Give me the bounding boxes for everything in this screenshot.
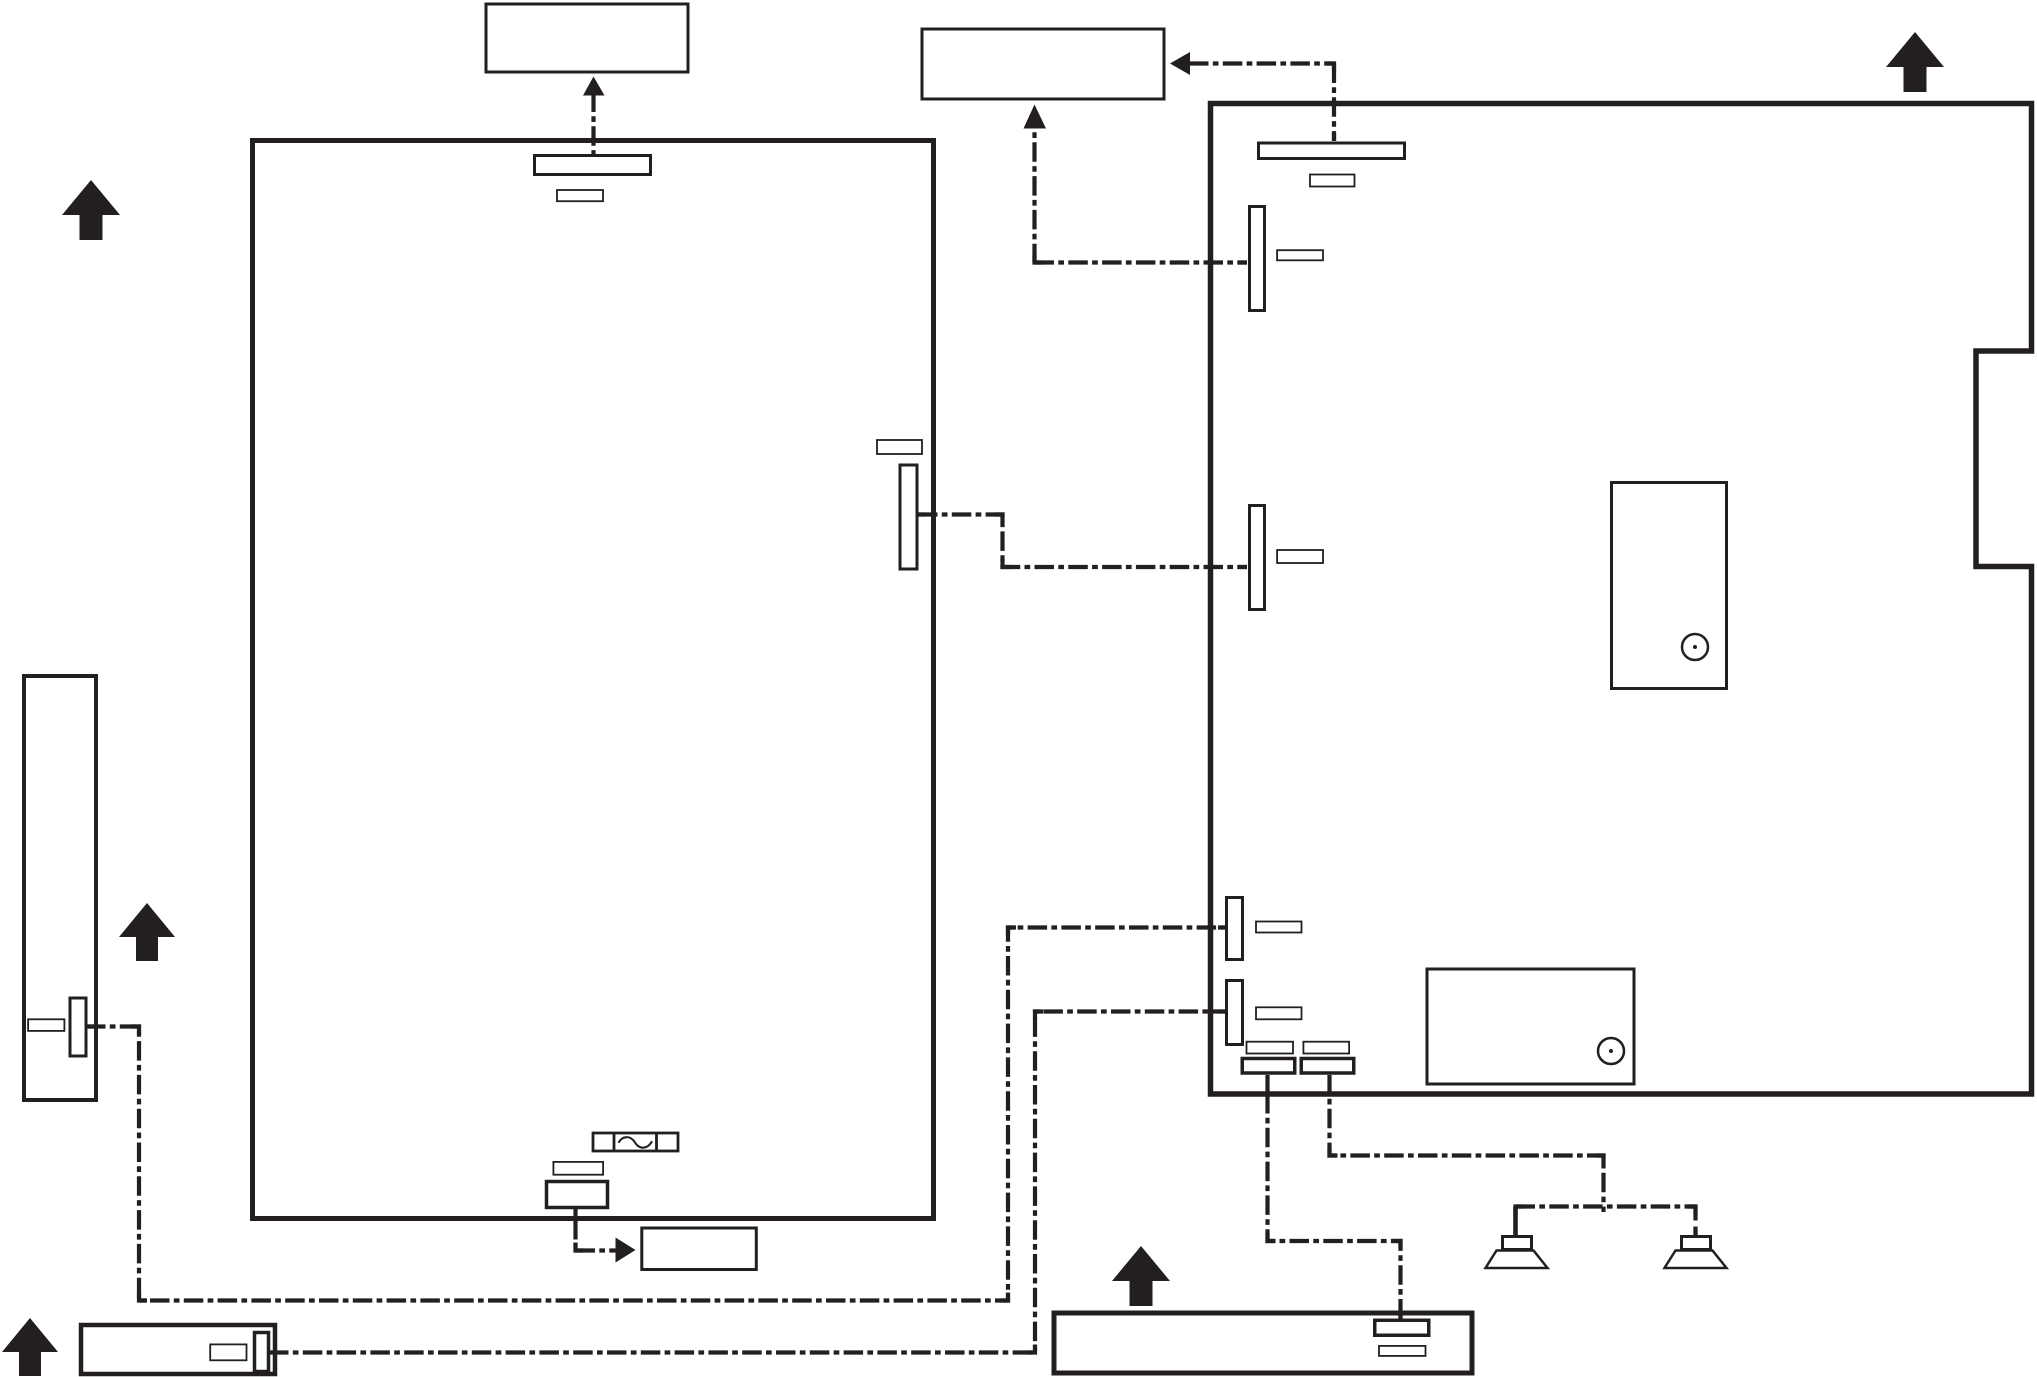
wire W4 CN2 to CN5	[918, 515, 1247, 568]
connector CN9 (line-out thick)	[1301, 1059, 1354, 1074]
AC power connector (thick)	[547, 1182, 608, 1208]
label AC	[553, 1162, 603, 1175]
connector CN1 (chassis A top)	[535, 156, 651, 175]
label CN7	[1256, 1007, 1302, 1019]
label CN5	[1277, 550, 1323, 563]
wire endpoint stubs (solid)	[86, 133, 1696, 1353]
nav arrow 4 (above bottom-right unit)	[1112, 1246, 1170, 1306]
box U3 (bottom-left external unit)	[81, 1325, 275, 1374]
nav arrow 2 (left mid)	[119, 903, 175, 961]
nav arrow 3 (top-right)	[1886, 32, 1944, 92]
wire W2 vertical	[1032, 128, 1036, 263]
wire W5 CN10 to CN6	[86, 928, 1226, 1301]
speaker SP-R	[1665, 1237, 1727, 1269]
speaker SP-L	[1486, 1237, 1548, 1269]
wire W2 horizontal to CN4	[1035, 260, 1248, 264]
wire W9 drop to SP-R	[1693, 1207, 1697, 1237]
side unit (tall left box)	[24, 676, 96, 1100]
connector CN7 (chassis B lower-left vertical 2)	[1227, 981, 1243, 1045]
label CN6	[1256, 922, 1302, 933]
label CN4	[1277, 250, 1323, 260]
wire W3 arrowhead into U2 right	[1170, 52, 1190, 75]
wire W3 vertical into CN3	[1332, 64, 1336, 142]
wire W9 speaker bus	[1516, 1204, 1696, 1208]
connector CN5 (chassis B mid-left vertical)	[1250, 506, 1265, 610]
wire W2 arrowhead into U2 bottom	[1024, 105, 1047, 129]
screw M2	[1682, 634, 1708, 660]
wire W9 CN9 to speakers	[1330, 1075, 1604, 1212]
box U4 (bottom-right external unit)	[1054, 1313, 1472, 1373]
PSU module (box with screw)	[1427, 969, 1634, 1084]
wire corner joints (solid patches)	[131, 64, 1696, 1353]
module M2 (tall box with screw)	[1612, 483, 1727, 689]
label CN12	[1379, 1346, 1426, 1356]
chassis A (left panel outline)	[253, 141, 934, 1219]
box U2 (top-middle external unit)	[922, 29, 1164, 99]
connector CN11 (bottom-left unit right end)	[255, 1333, 269, 1372]
label CN10	[28, 1019, 64, 1031]
wire W1 stem+arrowhead into U1	[583, 77, 605, 96]
label CN3	[1310, 175, 1355, 187]
label CN9 (thin rect above line-out)	[1303, 1042, 1349, 1054]
wire W3 horizontal	[1189, 61, 1334, 65]
connector CN8 (speaker-out thick)	[1242, 1059, 1295, 1074]
wire W9 drop to SP-L	[1513, 1207, 1518, 1237]
label CN2	[877, 440, 922, 454]
connector CN12 (inside bottom-right unit, thick)	[1375, 1320, 1429, 1335]
label CN1	[557, 190, 603, 201]
nav arrow 5 (bottom-left)	[2, 1318, 58, 1376]
AC inlet block (3-cell with sine)	[593, 1133, 678, 1151]
box U5 (AC-fed external unit)	[642, 1228, 757, 1270]
connector CN2 (chassis A right edge)	[900, 465, 917, 569]
wire W7 arrowhead into U5	[616, 1238, 636, 1263]
connector CN3 (chassis B top horizontal)	[1259, 143, 1405, 159]
connector CN4 (chassis B upper-left vertical)	[1250, 207, 1265, 311]
screw PSU	[1598, 1038, 1624, 1064]
box U1 (top-left external unit)	[486, 4, 688, 72]
nav arrow 1 (top-left)	[62, 180, 120, 240]
wire W7 AC connector to U5	[573, 1208, 577, 1220]
wire W6 CN11 to CN7	[269, 1012, 1226, 1353]
connector CN10 (side unit)	[70, 998, 86, 1056]
label CN11 (inside bottom-left unit)	[210, 1344, 246, 1360]
label CN8 (thin rect above speaker-out)	[1247, 1042, 1294, 1054]
chassis B (right panel outline with notch)	[1211, 104, 2032, 1095]
connector CN6 (chassis B lower-left vertical 1)	[1227, 898, 1243, 960]
wire W8 CN8 to CN12	[1265, 1075, 1269, 1094]
